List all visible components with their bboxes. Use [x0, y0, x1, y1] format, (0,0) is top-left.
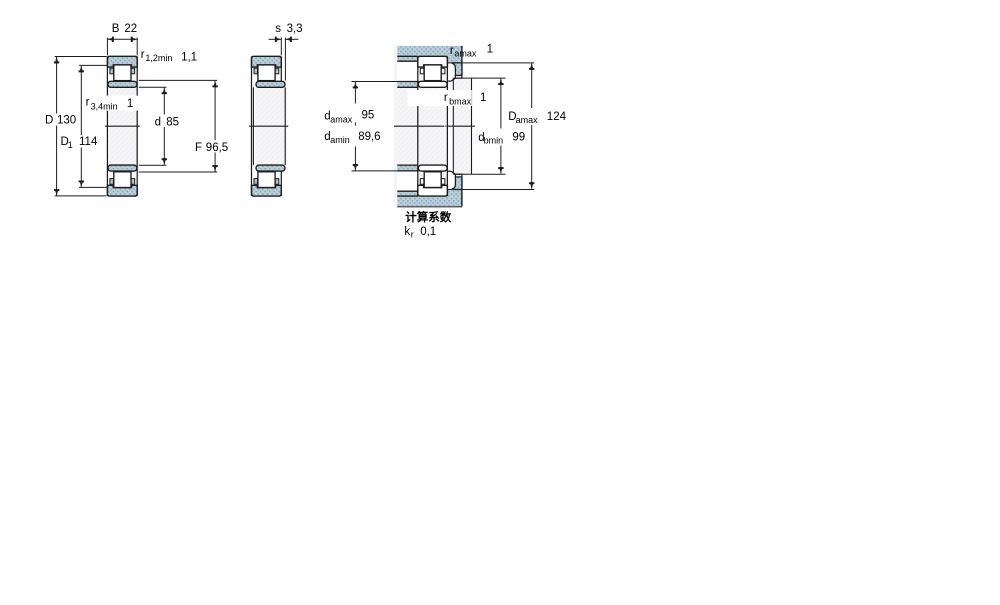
housing upper block — [397, 46, 462, 56]
white label band left view — [106, 96, 139, 111]
svg-text:99: 99 — [512, 131, 525, 143]
svg-text:r: r — [86, 97, 90, 109]
cage upper (left view) — [110, 68, 114, 74]
svg-text:d: d — [155, 117, 161, 129]
dimension D arrows — [55, 57, 59, 63]
left face line (mounted view) — [417, 56, 419, 196]
shaft shoulder lower (left) — [397, 165, 418, 171]
outer ring lower section (left view) — [107, 185, 137, 196]
housing lower block — [397, 196, 462, 206]
dimension db line — [500, 79, 502, 129]
outer ring upper section (left view) — [107, 56, 137, 67]
inner ring lower section (left view) — [108, 165, 137, 171]
dimension Da line — [531, 63, 533, 108]
dimension s extension lines — [280, 38, 282, 56]
svg-text:1: 1 — [68, 140, 73, 150]
dimension d extension lines — [139, 86, 167, 88]
dimension D1 extension lines — [79, 64, 107, 66]
inner ring upper section (middle view) — [256, 81, 285, 87]
svg-text:F: F — [195, 142, 202, 154]
svg-text:bmin: bmin — [484, 136, 504, 146]
housing bore line lower — [397, 195, 418, 197]
svg-text:amax: amax — [330, 115, 353, 125]
cage lower (middle view) — [254, 179, 258, 185]
dimension db arrows — [499, 79, 503, 85]
svg-text:r: r — [411, 229, 414, 239]
shaft d_b surface upper — [453, 77, 505, 79]
housing upper left lip — [397, 56, 418, 61]
svg-text:1: 1 — [487, 44, 493, 56]
right shaft body hatch — [453, 78, 471, 174]
svg-text:124: 124 — [547, 111, 567, 123]
dimension D1 arrows — [79, 66, 83, 72]
svg-text:3,3: 3,3 — [287, 23, 303, 35]
cage lower (left view) — [131, 179, 135, 185]
centre line left view — [105, 125, 140, 127]
dimension da arrows — [354, 82, 358, 88]
shaft shoulder upper (left) outline — [397, 81, 418, 83]
dimension Da arrows — [530, 63, 534, 69]
cage lower (left view) — [110, 179, 114, 185]
cage upper (middle view) — [254, 68, 258, 74]
cage lower (middle view) — [275, 179, 279, 185]
dimension D line — [56, 57, 58, 114]
outer ring lower section (mounted view) — [418, 185, 448, 196]
dimension s lines — [269, 38, 282, 40]
dimension D extension lines — [55, 56, 107, 58]
svg-text:r: r — [450, 45, 454, 57]
white label band right view — [408, 90, 472, 106]
bore column hatch middle view — [255, 87, 287, 165]
svg-text:计算系数: 计算系数 — [405, 210, 451, 224]
shaft right end line — [471, 78, 473, 174]
svg-text:3,4min: 3,4min — [91, 101, 118, 111]
svg-text:amax: amax — [516, 115, 539, 125]
svg-text:amin: amin — [330, 135, 350, 145]
cage upper (mounted view) — [441, 68, 445, 74]
housing upper right shoulder — [447, 56, 462, 63]
svg-text:1,1: 1,1 — [181, 51, 197, 63]
shaft shoulder lower (right) — [452, 177, 462, 190]
svg-text:k: k — [404, 226, 410, 238]
dimension F line — [214, 81, 216, 140]
svg-text:114: 114 — [79, 136, 98, 148]
svg-text:amax: amax — [454, 49, 477, 59]
shaft shoulder lower (left) outline — [397, 170, 418, 172]
shaft shoulder chamfer box upper — [455, 76, 462, 79]
svg-text:1: 1 — [480, 92, 486, 104]
roller upper (middle view) — [258, 65, 275, 81]
svg-text:D: D — [45, 115, 53, 127]
dimension da extension lines — [352, 81, 420, 83]
dimension B line — [107, 38, 137, 40]
dimension s arrows — [275, 37, 281, 41]
roller upper (mounted view) — [424, 65, 441, 81]
right face line (mounted view) — [446, 56, 448, 196]
bore column hatch left view — [107, 87, 137, 165]
svg-text:s: s — [275, 23, 281, 35]
inner ring lower section (middle view) — [256, 165, 285, 171]
cage lower (mounted view) — [441, 179, 445, 185]
cage upper (mounted view) — [420, 68, 424, 74]
housing bore line upper — [397, 55, 418, 57]
roller lower (mounted view) — [424, 172, 441, 188]
white gap below left shaft shoulder — [397, 171, 418, 191]
shaft step upper — [447, 80, 451, 82]
housing lip top lower — [397, 190, 418, 192]
roller upper (left view) — [114, 65, 131, 81]
svg-text:r: r — [444, 92, 448, 104]
inner ring upper section (mounted view) — [418, 81, 447, 87]
housing right edge — [461, 46, 463, 76]
housing lower band bottom edge — [397, 206, 462, 208]
housing lip bottom upper — [397, 60, 418, 62]
shaft step lower — [447, 170, 451, 172]
right face line (left view) — [136, 56, 138, 196]
svg-text:1: 1 — [127, 98, 133, 110]
shaft shoulder upper (left) — [397, 82, 418, 88]
svg-text:bmax: bmax — [449, 97, 472, 107]
svg-text:r: r — [141, 49, 145, 61]
housing lower right shoulder — [447, 190, 462, 197]
outer ring upper section (mounted view) — [418, 56, 448, 67]
cage lower (mounted view) — [420, 179, 424, 185]
right face line (middle view) — [280, 56, 282, 81]
dimension D1 line — [80, 66, 82, 135]
roller lower (middle view) — [258, 172, 275, 188]
centre line middle view — [249, 125, 288, 127]
cage upper (middle view) — [275, 68, 279, 74]
left face line (middle view) — [251, 56, 253, 196]
inner ring lower section (mounted view) — [418, 165, 447, 171]
svg-text:89,6: 89,6 — [358, 131, 380, 143]
svg-text:96,5: 96,5 — [206, 142, 228, 154]
cage upper (left view) — [131, 68, 135, 74]
svg-text:85: 85 — [166, 117, 179, 129]
svg-text:130: 130 — [57, 115, 76, 127]
shaft shoulder chamfer box lower — [455, 174, 462, 177]
shaft seat end line — [452, 78, 454, 174]
roller lower (left view) — [114, 172, 131, 188]
dimension da line — [354, 82, 356, 104]
shaft d_b surface lower — [453, 173, 505, 175]
axis centre line — [394, 125, 444, 127]
inner ring upper section (left view) — [108, 81, 137, 87]
dimension B arrows — [107, 37, 113, 41]
outer ring upper section (middle view) — [252, 56, 282, 67]
dimension Da extension lines — [447, 62, 534, 64]
dimension F arrows — [213, 81, 217, 87]
svg-text:0,1: 0,1 — [420, 226, 436, 238]
svg-text:22: 22 — [124, 23, 137, 35]
dimension B extension lines — [106, 38, 108, 56]
svg-text:95: 95 — [362, 110, 375, 122]
housing lower left lip — [397, 191, 418, 196]
inner ring bore edge lines middle view — [252, 87, 254, 165]
dimension d line — [163, 88, 165, 115]
dimension d arrows — [162, 88, 166, 94]
shaft shoulder upper (right) — [452, 63, 462, 76]
svg-text:1,2min: 1,2min — [145, 53, 172, 63]
shaft and housing section hatch — [394, 46, 447, 207]
white gap above left shaft shoulder — [397, 61, 418, 81]
dimension F extension lines — [139, 79, 217, 81]
outer ring lower section (middle view) — [252, 185, 282, 196]
svg-text:B: B — [112, 23, 120, 35]
left face line (left view) — [106, 56, 108, 196]
